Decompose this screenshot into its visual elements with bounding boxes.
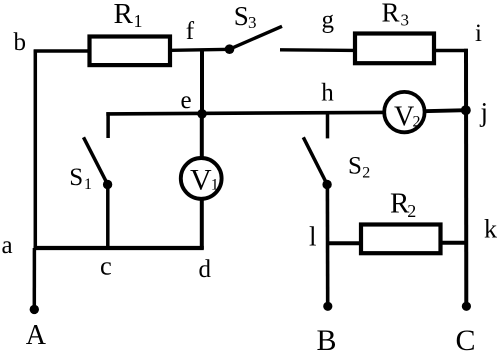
wire l to R2 <box>328 241 362 245</box>
switch S1 arm <box>84 137 108 184</box>
svg-text:j: j <box>480 97 489 127</box>
wire a to A <box>33 248 37 306</box>
svg-text:C: C <box>456 324 476 352</box>
svg-text:S: S <box>348 153 362 180</box>
voltmeter V1 <box>181 158 222 199</box>
wire V1 to d <box>200 198 204 249</box>
node e dot <box>197 109 207 119</box>
switch S1 pivot dot <box>103 180 112 189</box>
svg-text:1: 1 <box>134 11 143 31</box>
wire R3 to corner i <box>434 49 468 52</box>
svg-text:1: 1 <box>211 177 219 194</box>
svg-text:B: B <box>317 324 337 352</box>
wire e to V1 <box>200 112 204 159</box>
svg-text:a: a <box>2 232 13 259</box>
svg-text:V: V <box>394 102 414 133</box>
wire R1 to S3 pivot <box>172 49 232 50</box>
switch S3 arm <box>230 26 283 49</box>
svg-text:2: 2 <box>413 114 421 131</box>
voltmeter V2 <box>384 92 424 132</box>
wire a to d (bottom left) <box>34 246 204 250</box>
wire f to e (vertical) <box>200 49 204 115</box>
wire S2 to B <box>326 184 330 305</box>
wire S1 to c <box>106 184 110 250</box>
svg-text:R: R <box>114 0 134 30</box>
switch S3 pivot dot <box>225 44 235 54</box>
switch S2 arm <box>303 137 327 184</box>
svg-text:l: l <box>309 222 317 252</box>
wire e horizontal (stub to V2) <box>106 112 384 114</box>
svg-text:S: S <box>234 1 249 31</box>
wire b to R1 <box>34 49 89 52</box>
svg-text:1: 1 <box>84 176 92 193</box>
svg-text:2: 2 <box>362 165 370 182</box>
svg-text:i: i <box>475 20 482 47</box>
switch S2 pivot dot <box>322 180 331 189</box>
switch S2 fixed stub (node h) <box>326 112 330 138</box>
wire V2 to j <box>424 110 466 111</box>
wire R2 to k <box>440 241 467 245</box>
svg-text:V: V <box>190 163 212 196</box>
svg-text:g: g <box>322 6 335 33</box>
wire b to a (left vertical) <box>34 50 38 250</box>
svg-text:3: 3 <box>248 13 257 32</box>
svg-text:d: d <box>199 256 212 283</box>
resistor R3 <box>355 34 434 64</box>
node j dot <box>461 105 471 115</box>
terminal A dot <box>30 305 39 314</box>
resistor R1 <box>90 37 171 66</box>
terminal B dot <box>323 302 332 311</box>
terminal C dot <box>462 302 471 311</box>
svg-text:A: A <box>26 320 47 351</box>
svg-text:2: 2 <box>407 201 416 221</box>
svg-text:f: f <box>186 18 195 45</box>
wire S3 to R3 (node g segment) <box>280 48 355 52</box>
svg-text:b: b <box>14 29 27 56</box>
svg-text:h: h <box>321 80 334 107</box>
resistor R2 <box>361 225 441 254</box>
svg-text:R: R <box>382 0 400 27</box>
svg-text:k: k <box>484 215 497 244</box>
wire i to C (right vertical) <box>464 49 468 306</box>
svg-text:e: e <box>181 87 192 114</box>
svg-text:c: c <box>100 251 112 281</box>
switch S1 fixed stub <box>106 112 110 138</box>
svg-text:3: 3 <box>401 10 410 29</box>
svg-text:S: S <box>69 164 83 191</box>
